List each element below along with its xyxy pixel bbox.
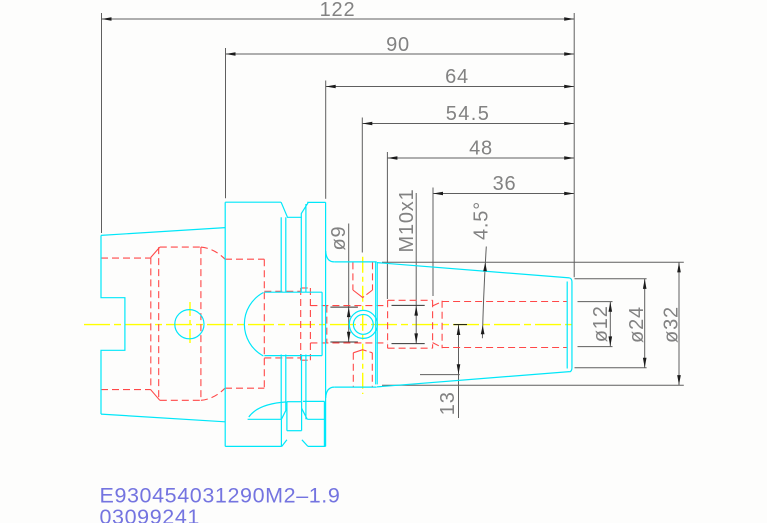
- svg-text:4.5°: 4.5°: [471, 201, 493, 240]
- svg-text:90: 90: [386, 34, 410, 56]
- svg-text:122: 122: [320, 0, 356, 21]
- svg-text:ø24: ø24: [626, 306, 648, 343]
- svg-text:13: 13: [437, 391, 459, 415]
- svg-text:54.5: 54.5: [446, 103, 491, 125]
- svg-text:ø9: ø9: [328, 226, 350, 251]
- svg-text:03099241: 03099241: [100, 505, 200, 523]
- svg-text:ø32: ø32: [661, 306, 683, 343]
- svg-text:36: 36: [493, 173, 517, 195]
- svg-text:48: 48: [469, 138, 493, 160]
- svg-text:ø12: ø12: [590, 305, 612, 342]
- svg-text:64: 64: [445, 66, 469, 88]
- svg-text:M10x1: M10x1: [396, 188, 418, 252]
